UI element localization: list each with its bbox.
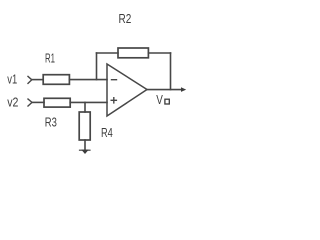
resistor R4 bbox=[79, 112, 90, 140]
wire op-amp output bbox=[147, 89, 181, 91]
svg-text:R2: R2 bbox=[119, 11, 132, 26]
wire feedback down to output node bbox=[170, 53, 172, 90]
svg-text:R4: R4 bbox=[101, 125, 113, 140]
input terminal v2 bbox=[28, 99, 32, 106]
resistor R3 bbox=[44, 98, 70, 107]
svg-text:v1: v1 bbox=[7, 71, 17, 86]
op-amp U1 bbox=[107, 64, 147, 116]
output arrow bbox=[181, 87, 186, 92]
resistor R1 bbox=[43, 75, 69, 85]
wire R3 to op-amp non-inverting input bbox=[70, 101, 107, 103]
svg-text:R3: R3 bbox=[45, 114, 57, 129]
svg-text:R1: R1 bbox=[45, 51, 55, 66]
wire R2 left bbox=[97, 52, 119, 54]
input terminal v1 bbox=[28, 76, 32, 83]
op-amp inverting input marker (-) bbox=[112, 79, 117, 81]
wire node A up to R2 bbox=[96, 53, 98, 80]
wire junction down to R4 bbox=[84, 102, 86, 112]
svg-text:V: V bbox=[156, 92, 163, 107]
op-amp non-inverting input marker (+) bbox=[111, 99, 116, 101]
wire R4 to ground bbox=[84, 140, 86, 151]
resistor R2 bbox=[118, 48, 148, 58]
label Vo subscript o bbox=[165, 99, 169, 104]
wire v2 to R3 bbox=[32, 101, 44, 103]
wire R1 to op-amp inverting input bbox=[69, 79, 107, 81]
wire R2 right bbox=[148, 52, 170, 54]
ground bbox=[80, 149, 91, 151]
svg-text:v2: v2 bbox=[7, 95, 18, 110]
wire v1 to R1 bbox=[32, 79, 43, 81]
